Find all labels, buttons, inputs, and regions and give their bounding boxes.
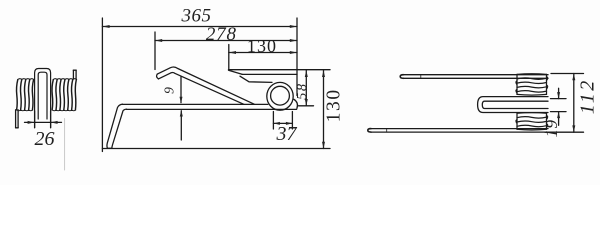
- svg-text:37: 37: [276, 123, 298, 145]
- 19 arrows (outside, pointing in): [557, 92, 560, 99]
- 130 right arrows: [322, 70, 325, 77]
- svg-text:112: 112: [577, 78, 599, 114]
- left coil block: [17, 79, 34, 111]
- 9 arrows: [180, 97, 183, 104]
- dim 58 bottom extension: [299, 105, 314, 107]
- 58 arrows: [305, 70, 308, 77]
- bottom-left bend and tip: [107, 104, 127, 148]
- dim 19 arrow shafts: [558, 88, 560, 98]
- bottom coil block (top view turns): [516, 113, 548, 130]
- dim 9: down arrow: [180, 77, 182, 103]
- coil circle outer: [267, 82, 293, 110]
- dim 130 right line: [323, 70, 325, 148]
- dim 37 extension lines: [272, 112, 274, 130]
- dim 9: up arrow shaft: [180, 111, 182, 140]
- hairpin loop (top view) inner: [482, 101, 548, 108]
- svg-text:9: 9: [162, 87, 177, 94]
- wire tail at coil bottom right: [294, 99, 298, 108]
- extension line left (365): [101, 18, 103, 152]
- svg-text:278: 278: [206, 24, 237, 45]
- dim 37 line: [273, 122, 292, 124]
- bottom long extension line: [102, 148, 330, 150]
- wire edge under tab going to coil: [240, 76, 272, 82]
- hairpin loop (top view) outer: [478, 97, 548, 113]
- faint vertical artifact line: [64, 119, 66, 171]
- svg-text:130: 130: [324, 88, 345, 122]
- svg-text:58: 58: [295, 82, 310, 100]
- dim 112 line: [573, 74, 575, 133]
- svg-text:19: 19: [542, 120, 561, 138]
- extension line right (365/278/130): [296, 18, 298, 96]
- svg-text:130: 130: [247, 36, 277, 56]
- attachment bar top edge (continues as extension line): [229, 69, 331, 71]
- left coil leg (wire end, bottom left): [16, 110, 19, 128]
- dimension line 365: [102, 26, 297, 28]
- svg-text:26: 26: [35, 128, 55, 150]
- 112 arrows: [572, 74, 575, 81]
- dimension line 130 + extension: [228, 45, 230, 70]
- dimension 26 line with outside arrows: [25, 111, 62, 128]
- right coil leg (wire end, top right): [73, 70, 76, 79]
- 365 arrows: [102, 25, 109, 28]
- dim 58 line: [305, 70, 307, 106]
- upper arm: tail tip, peak bend, diagonal down to lower arm: [158, 72, 243, 104]
- attachment bar bottom edge of flat tab: [242, 73, 297, 75]
- right coil block: [52, 79, 77, 111]
- top coil block (top view turns): [516, 74, 548, 95]
- lower arm (tine) double line: [123, 103, 268, 105]
- bottom arm double line: [368, 129, 548, 133]
- dim 112 extension lines: [551, 73, 584, 75]
- coil circle inner: [271, 86, 290, 105]
- dim 19 extension lines: [551, 98, 567, 100]
- 37 arrows (inside, pointing out): [273, 122, 280, 125]
- center hairpin loop (front): [35, 69, 51, 128]
- 278 arrows: [155, 39, 162, 42]
- bar wedge tip: [229, 70, 243, 74]
- upper arm tail round cap: [157, 74, 159, 79]
- 130 arrows: [229, 51, 236, 54]
- top arm double line: [400, 75, 548, 79]
- dimension line 278 + extension: [154, 32, 156, 70]
- 26 arrows (outside, pointing in): [28, 121, 35, 124]
